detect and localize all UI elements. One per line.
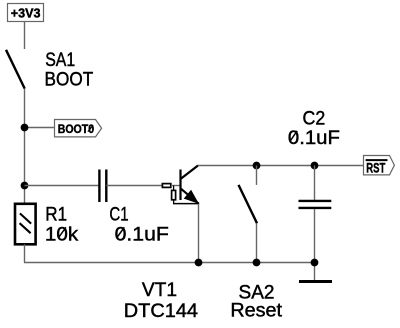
node BOOT0 junction bbox=[21, 124, 29, 132]
switch SA2 blade bbox=[239, 185, 258, 223]
svg-text:0.1uF: 0.1uF bbox=[115, 224, 169, 245]
wire box to base bar bbox=[171, 185, 180, 187]
svg-text:0.1uF: 0.1uF bbox=[288, 128, 340, 149]
label 0.1uF (C2) bbox=[288, 128, 340, 149]
capacitor C1 bbox=[99, 170, 106, 203]
base series resistor bbox=[162, 184, 170, 188]
wire junction to C1 bbox=[25, 185, 99, 187]
net flag RST bbox=[364, 156, 395, 176]
wire SA2 top stub bbox=[256, 166, 258, 185]
node R1/C1 junction bbox=[21, 182, 29, 190]
wire C2 top stub bbox=[314, 166, 316, 200]
collector bbox=[181, 166, 199, 180]
svg-text:VT1: VT1 bbox=[142, 280, 177, 301]
node C2 bottom junction bbox=[311, 259, 319, 267]
svg-text:R1: R1 bbox=[45, 205, 67, 226]
svg-text:10k: 10k bbox=[45, 224, 79, 245]
emitter with arrow bbox=[181, 189, 199, 204]
svg-text:Reset: Reset bbox=[230, 301, 282, 322]
svg-text:C1: C1 bbox=[109, 205, 128, 226]
wire SA1 to R1 (left rail) bbox=[24, 89, 26, 204]
capacitor C2 bbox=[299, 201, 332, 208]
switch SA1 blade bbox=[6, 50, 25, 89]
wire emitter to bottom rail bbox=[198, 204, 200, 263]
svg-text:DTC144: DTC144 bbox=[124, 301, 199, 322]
node SA2 bottom junction bbox=[253, 259, 261, 267]
svg-text:BOOT: BOOT bbox=[45, 70, 94, 91]
power flag +3V3 bbox=[8, 4, 44, 22]
wire bottom rail bbox=[24, 262, 315, 264]
node emitter/bottom junction bbox=[195, 259, 203, 267]
wire from +3V3 to switch SA1 bbox=[24, 22, 26, 50]
base bar bbox=[179, 170, 181, 201]
svg-text:SA1: SA1 bbox=[45, 50, 75, 71]
ground bbox=[299, 280, 332, 283]
wire C1 to base resistor bbox=[106, 185, 162, 187]
node C2 top junction bbox=[311, 162, 319, 170]
label 0.1uF (C1) bbox=[115, 224, 169, 245]
wire C2 bottom to ground bbox=[314, 209, 316, 280]
base-emitter resistor bbox=[173, 186, 175, 191]
transistor VT1 bbox=[162, 166, 199, 204]
wire R1 to bottom rail bbox=[24, 244, 26, 262]
node SA2 top junction bbox=[253, 162, 261, 170]
wire to BOOT0 flag bbox=[25, 127, 54, 129]
svg-text:BOOT0: BOOT0 bbox=[58, 122, 95, 136]
svg-text:RST: RST bbox=[366, 160, 386, 175]
wire SA2 bottom stub bbox=[256, 223, 258, 262]
resistor R1 bbox=[15, 204, 36, 245]
net flag BOOT0 bbox=[55, 120, 102, 137]
svg-text:+3V3: +3V3 bbox=[11, 5, 41, 20]
svg-text:C2: C2 bbox=[303, 108, 326, 129]
wire collector top row bbox=[198, 165, 363, 167]
label 10k bbox=[45, 224, 79, 245]
